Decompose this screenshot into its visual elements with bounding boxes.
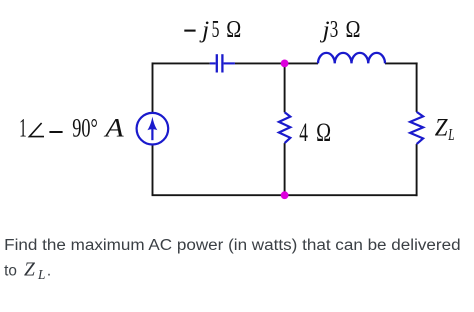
label 1 angle -90 deg A (source value) — [19, 114, 124, 143]
capacitor C1 (-j5 ohm) — [210, 54, 235, 72]
svg-text:90°: 90° — [72, 114, 98, 143]
wire top-mid segment (capacitor to node to inductor) — [235, 62, 318, 64]
svg-text:4: 4 — [299, 118, 308, 147]
node dot top (junction) — [281, 60, 289, 68]
svg-text:.: . — [47, 262, 51, 279]
current source I1 arrow — [147, 117, 157, 141]
current source I1 circle — [137, 113, 169, 145]
svg-text:3: 3 — [330, 16, 339, 43]
wire top-right segment — [385, 62, 418, 64]
label ZL — [435, 115, 455, 144]
wire left vertical upper — [152, 62, 154, 113]
label -j5 ohm — [184, 16, 241, 44]
svg-text:Z: Z — [24, 260, 35, 281]
wire right vertical lower — [416, 144, 418, 196]
svg-text:L: L — [448, 125, 455, 144]
svg-text:5: 5 — [212, 16, 220, 43]
wire middle vertical upper — [284, 63, 286, 112]
svg-text:A: A — [103, 114, 124, 143]
resistor R1 (4 ohm) zigzag — [279, 112, 290, 143]
svg-text:Ω: Ω — [226, 16, 241, 43]
question text line 2: to Z_L. — [4, 260, 51, 282]
inductor L1 (j3 ohm) — [318, 53, 385, 64]
wire top-left segment — [153, 62, 210, 64]
angle symbol — [29, 123, 44, 137]
svg-text:Ω: Ω — [316, 118, 331, 147]
label j3 ohm — [320, 16, 361, 44]
svg-text:Z: Z — [435, 115, 449, 142]
svg-text:j: j — [199, 17, 209, 44]
node dot bottom (junction) — [281, 191, 289, 199]
label 4 ohm — [299, 118, 331, 147]
resistor ZL zigzag — [410, 112, 423, 144]
svg-text:j: j — [320, 17, 330, 44]
svg-text:L: L — [37, 267, 45, 282]
wire bottom — [152, 194, 418, 196]
wire left vertical lower — [152, 145, 154, 196]
svg-text:Find the maximum AC power (in: Find the maximum AC power (in watts) tha… — [4, 237, 460, 254]
svg-text:to: to — [4, 262, 17, 279]
svg-text:Ω: Ω — [346, 16, 361, 43]
svg-text:1: 1 — [19, 114, 27, 143]
wire middle vertical lower — [284, 143, 286, 195]
wire right vertical upper — [416, 62, 418, 111]
